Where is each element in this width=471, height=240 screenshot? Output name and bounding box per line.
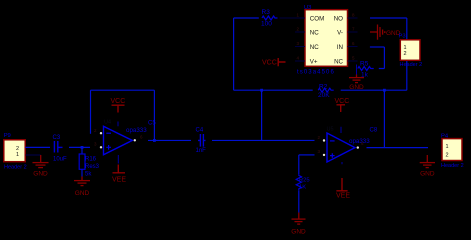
svg-text:20K: 20K bbox=[318, 92, 330, 99]
svg-text:1: 1 bbox=[404, 45, 407, 51]
node junction feedback/output bbox=[153, 139, 156, 142]
node junction rail/opamp2 output bbox=[383, 89, 386, 92]
svg-text:COM: COM bbox=[310, 15, 324, 22]
svg-text:NC: NC bbox=[334, 59, 343, 66]
svg-text:VCC: VCC bbox=[262, 59, 277, 66]
U3 pin numbers bbox=[297, 13, 356, 61]
svg-text:R2: R2 bbox=[319, 84, 328, 91]
svg-text:Header 2: Header 2 bbox=[400, 62, 423, 68]
svg-text:IN: IN bbox=[337, 44, 343, 51]
wire bottom rail left segment bbox=[234, 89, 313, 91]
power port VEE at U5 bbox=[336, 178, 347, 191]
ground GND below NC pin bbox=[349, 75, 364, 83]
svg-text:GND: GND bbox=[349, 84, 364, 91]
svg-text:P4: P4 bbox=[441, 134, 449, 140]
wire R3 net horizontal bbox=[234, 17, 259, 19]
wire bottom rail right segment bbox=[341, 89, 407, 91]
svg-text:R16: R16 bbox=[85, 156, 97, 162]
svg-text:C5: C5 bbox=[148, 120, 156, 126]
svg-text:10uF: 10uF bbox=[53, 156, 67, 162]
node junction R16 top bbox=[81, 146, 84, 149]
svg-text:100: 100 bbox=[261, 21, 272, 28]
header P4 bbox=[442, 139, 462, 161]
svg-text:opa333: opa333 bbox=[126, 127, 147, 134]
wire feedback top (U4) bbox=[91, 89, 155, 91]
wire IN pin bbox=[370, 46, 385, 48]
header P3 bbox=[400, 40, 420, 61]
svg-text:7: 7 bbox=[352, 27, 355, 32]
capacitor C4 bbox=[198, 134, 206, 147]
svg-text:1: 1 bbox=[446, 144, 449, 150]
svg-text:Res3: Res3 bbox=[85, 164, 100, 170]
svg-text:NC: NC bbox=[310, 30, 319, 37]
svg-text:1K: 1K bbox=[299, 184, 306, 190]
svg-text:2: 2 bbox=[446, 153, 449, 159]
wire feedback left vertical bbox=[90, 90, 92, 134]
svg-text:3: 3 bbox=[297, 41, 300, 46]
U4 V+ stub bbox=[117, 122, 119, 127]
ground GND right of V- (horizontal earth) bbox=[370, 25, 385, 40]
wire R3 to COM pin bbox=[280, 17, 296, 19]
pin hotspot dots (white) bbox=[100, 132, 359, 156]
svg-text:opa333: opa333 bbox=[349, 138, 370, 145]
svg-text:6: 6 bbox=[352, 41, 355, 46]
ground GND below R25 bbox=[292, 213, 306, 225]
wire NO pin to right bbox=[370, 17, 407, 19]
IC U3 bbox=[305, 10, 348, 67]
svg-text:3: 3 bbox=[318, 149, 321, 154]
svg-text:R5: R5 bbox=[360, 60, 369, 67]
svg-text:GND: GND bbox=[420, 171, 435, 178]
U5 V+ stub bbox=[340, 127, 342, 133]
wire IN down to R5 bbox=[379, 47, 385, 69]
svg-text:6: 6 bbox=[140, 134, 143, 139]
resistor R3 bbox=[262, 16, 278, 20]
U3 pin names bbox=[310, 15, 344, 65]
wire C4 to U5 inverting input bbox=[212, 139, 315, 141]
svg-text:NO: NO bbox=[334, 15, 343, 22]
svg-text:U5: U5 bbox=[327, 126, 334, 132]
node junction rail/C4 drop bbox=[260, 89, 263, 92]
svg-text:GND: GND bbox=[291, 229, 306, 236]
svg-text:P9: P9 bbox=[4, 133, 11, 139]
svg-text:VEE: VEE bbox=[112, 177, 126, 184]
op-amp U5 bbox=[327, 133, 355, 162]
svg-text:1: 1 bbox=[297, 13, 300, 18]
svg-text:2: 2 bbox=[404, 51, 407, 57]
svg-text:1nF: 1nF bbox=[196, 148, 207, 154]
U3 pin stubs right bbox=[348, 18, 358, 61]
wire NC pin down bbox=[356, 65, 358, 75]
svg-text:5: 5 bbox=[352, 56, 355, 61]
ground GND at P4 bbox=[420, 155, 435, 168]
svg-text:V-: V- bbox=[337, 30, 343, 37]
U3 pin stubs left bbox=[295, 18, 305, 61]
svg-text:8: 8 bbox=[352, 13, 355, 18]
svg-text:3: 3 bbox=[94, 142, 97, 147]
resistor R16 (Res3 rectangle) bbox=[79, 154, 85, 169]
wire R16 top bbox=[81, 147, 83, 154]
svg-text:C3: C3 bbox=[53, 135, 61, 141]
svg-text:U3: U3 bbox=[304, 5, 311, 11]
svg-text:2: 2 bbox=[94, 128, 97, 133]
wire C3 to U4 + input bbox=[69, 146, 90, 148]
power port VEE at U4 bbox=[113, 165, 126, 173]
svg-text:P3: P3 bbox=[399, 34, 406, 40]
wire P9 pin1 to GND bbox=[26, 154, 41, 156]
wire down to R25 bbox=[298, 155, 300, 174]
svg-text:Header 2: Header 2 bbox=[4, 165, 27, 171]
header P9 bbox=[4, 140, 25, 162]
wire R16 bottom bbox=[81, 169, 83, 176]
wire R25 to GND bbox=[298, 190, 300, 212]
svg-text:VCC: VCC bbox=[111, 98, 126, 105]
resistor R5 bbox=[358, 67, 374, 71]
svg-text:V+: V+ bbox=[310, 59, 318, 66]
svg-text:2: 2 bbox=[318, 135, 321, 140]
ground GND at P9 bbox=[33, 155, 49, 168]
wire feedback right vertical bbox=[153, 90, 155, 140]
wire U4 output bbox=[148, 139, 191, 141]
resistor R25 (vertical) bbox=[296, 174, 301, 190]
svg-text:Header 2: Header 2 bbox=[441, 163, 464, 169]
ground GND below R16 bbox=[74, 177, 90, 186]
wire vertical left of rail bbox=[233, 18, 235, 90]
U5 V- stub bbox=[341, 162, 343, 164]
wire U5 + input bbox=[299, 154, 315, 156]
svg-text:GND: GND bbox=[33, 171, 48, 178]
wire P9 pin2 to C3 bbox=[25, 146, 50, 148]
wire right vertical upper bbox=[406, 18, 408, 40]
svg-text:5k: 5k bbox=[85, 172, 92, 178]
U4 V- stub bbox=[117, 155, 119, 164]
wire right vertical lower bbox=[406, 60, 408, 90]
wire output up to rail bbox=[383, 90, 385, 147]
wire U5 output bbox=[367, 147, 429, 149]
svg-text:GND: GND bbox=[75, 190, 90, 197]
svg-text:VEE: VEE bbox=[336, 193, 350, 200]
svg-text:C8: C8 bbox=[370, 127, 378, 133]
svg-text:R3: R3 bbox=[262, 9, 271, 16]
wire C4 drop bbox=[261, 90, 263, 140]
svg-text:R25: R25 bbox=[299, 177, 310, 183]
capacitor C3 bbox=[54, 141, 62, 153]
svg-text:NC: NC bbox=[310, 44, 319, 51]
svg-text:ts03a4506: ts03a4506 bbox=[297, 70, 335, 76]
svg-text:2: 2 bbox=[297, 27, 300, 32]
svg-text:1: 1 bbox=[16, 152, 19, 158]
svg-text:U4: U4 bbox=[104, 119, 111, 125]
resistor R2 bbox=[318, 88, 334, 92]
op-amp U4 bbox=[104, 126, 133, 154]
svg-text:C4: C4 bbox=[196, 127, 204, 133]
svg-text:4: 4 bbox=[297, 56, 300, 61]
